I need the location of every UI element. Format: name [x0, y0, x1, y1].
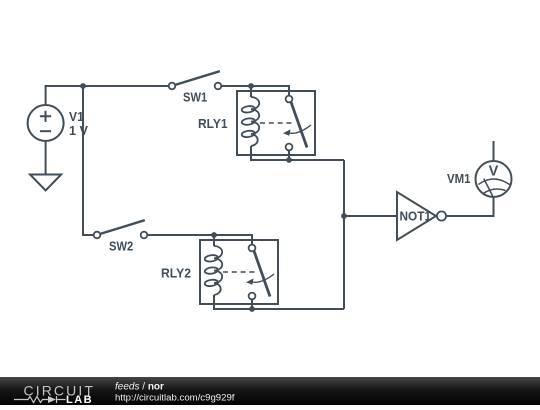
junction dot RLY2 bottom — [249, 306, 255, 312]
RLY1 contact terminals — [286, 96, 293, 103]
wire RLY2 coil top tap — [213, 235, 215, 246]
svg-text:http://circuitlab.com/c9g929f: http://circuitlab.com/c9g929f — [115, 393, 235, 404]
wire SW1 to RLY1 — [221, 86, 289, 96]
ground — [30, 175, 61, 191]
node A junction dot — [80, 83, 86, 89]
wire left vertical from node A to SW2 — [83, 86, 94, 235]
svg-text:VM1: VM1 — [447, 171, 471, 186]
voltage source V1 — [28, 105, 64, 141]
junction dot RLY1 coil top — [248, 83, 254, 89]
wire VM1 top stub — [493, 141, 495, 161]
RLY1 arrow — [287, 125, 311, 133]
svg-text:NOT1: NOT1 — [400, 209, 432, 224]
voltmeter VM1 — [447, 161, 512, 197]
svg-text:feeds / nor: feeds / nor — [115, 382, 164, 393]
RLY1 coil — [241, 97, 259, 146]
relay RLY1 — [198, 91, 315, 155]
junction dot RLY2 coil top — [211, 232, 217, 238]
svg-text:V1: V1 — [69, 109, 84, 124]
svg-text:1 V: 1 V — [69, 123, 88, 138]
RLY1 lever — [291, 102, 307, 148]
RLY2 dashed link — [223, 271, 257, 273]
wire RLY2 bottom rail — [214, 295, 344, 309]
RLY2 arrow — [250, 274, 274, 282]
wire RLY1 contact bottom — [288, 150, 290, 160]
svg-text:LAB: LAB — [66, 394, 93, 405]
svg-text:V: V — [489, 164, 499, 180]
wire NOT1 output to VM1 — [446, 197, 494, 216]
junction dot NOT1 input — [341, 213, 347, 219]
relay RLY2 — [161, 240, 278, 304]
svg-text:RLY1: RLY1 — [198, 116, 228, 131]
wire right vertical bus — [343, 160, 345, 309]
RLY2 coil — [204, 246, 222, 295]
wire RLY2 contact bottom — [251, 299, 253, 309]
junction dot RLY1 bottom — [286, 157, 292, 163]
wire top from V1 to SW1 — [46, 86, 169, 105]
inverter NOT1 — [397, 192, 446, 240]
wire V1 bottom to ground — [45, 141, 47, 175]
wire SW2 to RLY2 — [147, 235, 252, 245]
svg-text:RLY2: RLY2 — [161, 266, 191, 281]
switch SW1 — [169, 71, 222, 104]
footer bar — [0, 377, 540, 405]
logo resistor-diode squiggle — [14, 396, 66, 403]
RLY2 lever — [254, 251, 270, 297]
RLY2 contact terminals — [249, 245, 256, 252]
wire RLY1 coil top tap — [250, 86, 252, 97]
wire NOT1 input — [344, 215, 397, 217]
switch SW2 — [94, 220, 148, 253]
wire RLY1 bottom rail — [251, 146, 344, 160]
RLY1 dashed link — [260, 122, 294, 124]
svg-text:SW2: SW2 — [109, 239, 133, 254]
svg-text:SW1: SW1 — [183, 90, 207, 105]
